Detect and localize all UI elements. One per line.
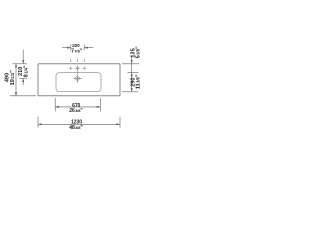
svg-text:81/4": 81/4" bbox=[23, 65, 29, 77]
svg-text:77/8": 77/8" bbox=[71, 48, 83, 54]
svg-text:200: 200 bbox=[72, 43, 80, 48]
svg-text:263/8": 263/8" bbox=[69, 108, 83, 114]
svg-text:53/8": 53/8" bbox=[136, 46, 141, 58]
svg-text:191/4": 191/4" bbox=[10, 70, 16, 86]
svg-text:113/8": 113/8" bbox=[136, 74, 141, 89]
svg-text:483/8": 483/8" bbox=[69, 125, 83, 131]
